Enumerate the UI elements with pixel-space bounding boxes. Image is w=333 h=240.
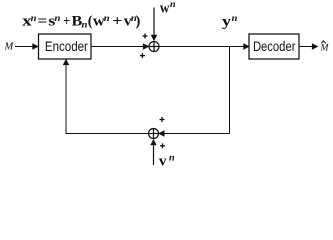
- svg-text:n: n: [31, 13, 37, 23]
- svg-text:n: n: [232, 13, 238, 23]
- wire branch down from y line: [229, 47, 231, 134]
- block Encoder: [39, 34, 92, 59]
- wire adder S2 back to Encoder (left and up): [63, 59, 149, 134]
- svg-text:=: =: [37, 13, 47, 29]
- svg-text:+: +: [63, 13, 70, 29]
- svg-text:Encoder: Encoder: [45, 38, 88, 54]
- svg-text:n: n: [82, 20, 88, 30]
- plus sign (encoder input of S1): [140, 53, 145, 58]
- svg-text:): ): [136, 13, 141, 29]
- block Decoder: [249, 34, 299, 59]
- svg-text:n: n: [169, 152, 175, 162]
- node w^n (label): [160, 0, 176, 16]
- node v^n (label): [159, 152, 175, 169]
- node M-hat (output label): [320, 41, 330, 54]
- equation label x^n = s^n + B_n(w^n + v^n): [22, 13, 140, 30]
- wire M to Encoder: [15, 43, 39, 49]
- svg-text:M: M: [320, 44, 330, 54]
- plus sign (feedback input of S2): [160, 117, 165, 122]
- svg-text:+: +: [112, 13, 122, 29]
- svg-text:v: v: [159, 154, 167, 170]
- plus sign (w input of S1): [143, 34, 148, 39]
- wire Encoder to adder S1: [91, 43, 149, 49]
- wire w^n into adder S1: [151, 8, 157, 42]
- adder S2 (circle with plus): [149, 129, 159, 139]
- wire adder S1 to Decoder: [159, 43, 250, 49]
- svg-text:n: n: [104, 13, 110, 23]
- adder S1 (circle with plus): [149, 42, 159, 52]
- wire Decoder to output M-hat: [299, 43, 318, 49]
- plus sign (v input of S2): [160, 143, 165, 148]
- wire feedback horizontal into adder S2: [158, 130, 230, 136]
- svg-text:n: n: [55, 13, 61, 23]
- svg-text:Decoder: Decoder: [253, 38, 296, 54]
- wire v^n into adder S2: [150, 139, 156, 165]
- node y^n (label): [222, 13, 237, 30]
- svg-text:w: w: [160, 0, 170, 16]
- svg-text:M: M: [4, 42, 15, 53]
- svg-text:y: y: [222, 14, 232, 30]
- svg-text:n: n: [170, 0, 176, 9]
